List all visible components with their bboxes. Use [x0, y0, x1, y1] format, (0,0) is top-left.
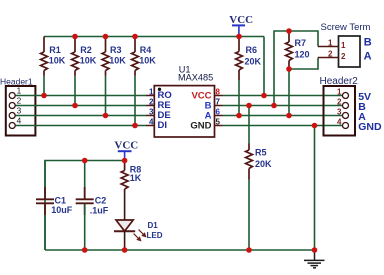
node row2 R2	[72, 103, 78, 109]
svg-text:2: 2	[149, 98, 154, 107]
wire C1 top segment	[44, 161, 46, 188]
node mid rail VCC	[122, 158, 128, 164]
svg-text:R6: R6	[246, 45, 258, 55]
diode D1 LED	[114, 220, 163, 250]
svg-text:C1: C1	[55, 195, 67, 205]
svg-text:20K: 20K	[245, 57, 262, 67]
svg-text:2: 2	[328, 49, 333, 58]
power VCC symbol top	[229, 14, 253, 37]
wire screw pin 1	[318, 46, 339, 48]
node row4 gnd	[312, 123, 318, 129]
svg-text:R7: R7	[295, 38, 307, 48]
header2 pin 1	[343, 93, 349, 99]
wire GND drop from row4	[314, 126, 316, 251]
pin 2	[15, 105, 146, 107]
wire screw pin 2	[318, 57, 339, 59]
wire header2 pin stubs	[324, 96, 342, 126]
resistor R5	[248, 106, 250, 144]
resistor R6	[236, 38, 243, 80]
node row3 R7	[286, 113, 292, 119]
node R2 top	[72, 34, 78, 40]
wire row3 A net	[223, 115, 343, 117]
op-amp U1 MAX485	[149, 64, 220, 137]
capacitor C2	[84, 161, 86, 199]
wire GND bottom rail	[45, 249, 315, 251]
svg-text:D1: D1	[148, 221, 159, 230]
wire screw-term bottom loop (A net)	[289, 58, 318, 70]
svg-text:1: 1	[149, 88, 154, 97]
header2 pin 2	[343, 103, 349, 109]
svg-text:A: A	[364, 51, 372, 63]
header Header1	[0, 76, 146, 135]
node gnd rail R5	[246, 247, 252, 253]
svg-text:1: 1	[17, 85, 22, 95]
svg-text:R5: R5	[255, 148, 267, 158]
svg-text:20K: 20K	[255, 159, 272, 169]
wire R4 to row4	[134, 76, 136, 126]
node row4 R4	[132, 123, 138, 129]
svg-text:.1uF: .1uF	[90, 205, 109, 215]
wire row4 GND net	[223, 125, 343, 127]
svg-text:10K: 10K	[80, 55, 97, 65]
resistor R1	[41, 37, 48, 76]
svg-text:2: 2	[341, 52, 346, 61]
svg-text:1: 1	[341, 41, 346, 50]
node VCC/R6	[236, 34, 242, 40]
svg-text:GND: GND	[358, 121, 382, 133]
resistor R2	[72, 38, 79, 76]
wire R5 to gnd rail	[248, 180, 250, 251]
resistor R3	[102, 38, 109, 76]
svg-text:R2: R2	[80, 45, 92, 55]
svg-text:10K: 10K	[139, 55, 156, 65]
svg-text:2: 2	[17, 95, 22, 105]
node gnd rail ground	[312, 247, 318, 253]
wire R7 bottom to row3	[288, 69, 290, 116]
node gnd rail C2	[82, 247, 88, 253]
node row1 VCC drop	[261, 93, 267, 99]
wire screw-term top loop (B net)	[274, 31, 318, 106]
node row3 R6	[236, 113, 242, 119]
wire R6 to row3	[238, 80, 240, 116]
U1 pin stubs left	[146, 96, 154, 126]
U1 pin stubs right	[215, 96, 223, 126]
node R7 bottom	[286, 66, 292, 72]
header2 pin 3	[343, 113, 349, 119]
ground symbol	[304, 250, 325, 268]
svg-text:3: 3	[17, 105, 22, 115]
pin 4	[15, 125, 146, 127]
svg-text:R3: R3	[110, 45, 122, 55]
svg-text:VCC: VCC	[114, 140, 138, 152]
wire mid rail	[45, 161, 125, 251]
svg-text:C2: C2	[95, 195, 107, 205]
svg-text:3: 3	[149, 108, 154, 117]
svg-text:4: 4	[149, 118, 154, 127]
svg-text:R4: R4	[140, 45, 152, 55]
screw terminal body	[339, 36, 361, 67]
svg-text:4: 4	[337, 118, 342, 127]
node mid rail C2	[82, 158, 88, 164]
node R4 top	[132, 34, 138, 40]
svg-text:2: 2	[337, 98, 342, 107]
node R7 top	[286, 28, 292, 34]
wire R8 to LED	[124, 192, 126, 220]
node R3 top	[103, 34, 109, 40]
svg-text:1: 1	[328, 39, 333, 48]
pin 1	[15, 95, 146, 97]
wire VCC top rail	[44, 36, 264, 38]
svg-text:4: 4	[17, 115, 22, 125]
svg-text:Screw Term: Screw Term	[321, 22, 371, 33]
header2 body	[324, 86, 356, 136]
header2 pin 4	[343, 123, 349, 129]
svg-text:120: 120	[295, 50, 310, 60]
screw terminal J1	[318, 22, 372, 67]
svg-text:B: B	[364, 36, 372, 48]
wire row1 VCC net	[223, 95, 343, 97]
wire R3 to row3	[105, 76, 107, 116]
svg-text:LED: LED	[147, 231, 163, 240]
resistor R7	[286, 31, 293, 69]
power VCC symbol bottom	[114, 140, 138, 161]
header Header2	[320, 76, 382, 136]
svg-text:10K: 10K	[109, 55, 126, 65]
pin 3	[15, 115, 146, 117]
wire VCC drop to U1 pin8 row	[263, 37, 265, 96]
svg-text:R1: R1	[49, 45, 61, 55]
svg-text:10uF: 10uF	[51, 205, 73, 215]
svg-text:1K: 1K	[130, 173, 142, 183]
node row2 R5	[246, 103, 252, 109]
node row1 R1	[41, 93, 47, 99]
node row3 R3	[103, 113, 109, 119]
capacitor C1	[36, 187, 54, 215]
svg-text:DI: DI	[158, 120, 168, 131]
svg-text:3: 3	[337, 108, 342, 117]
wire R2 to row2	[74, 76, 76, 106]
wire C1 bottom segment	[44, 215, 46, 250]
node row2 screw	[271, 103, 277, 109]
node gnd rail LED	[122, 247, 128, 253]
wire row2 B net	[223, 105, 343, 107]
wire R1 to row1	[43, 76, 45, 96]
svg-text:1: 1	[337, 88, 342, 97]
svg-text:MAX485: MAX485	[178, 72, 213, 82]
resistor R4	[132, 38, 139, 76]
svg-text:GND: GND	[190, 120, 211, 131]
svg-text:VCC: VCC	[229, 14, 253, 26]
svg-text:10K: 10K	[49, 55, 66, 65]
resistor R8	[121, 161, 128, 192]
